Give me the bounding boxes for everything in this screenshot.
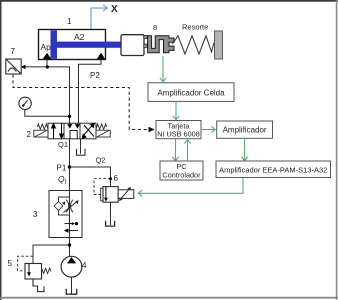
green arrow: Amplificador to EEA-PAM [241,138,247,160]
solenoid (valve 6) [118,190,134,199]
svg-text:P2: P2 [90,71,100,80]
svg-text:3: 3 [33,210,38,219]
junction dot pilot tap [109,177,112,180]
green arrow: Tarjeta to PC [172,139,178,161]
spring left (valve 2) [38,124,49,130]
spring (Resorte) [173,36,215,54]
svg-text:4: 4 [82,261,87,270]
wire pump to tank [71,277,73,294]
wire branch to relief valve 5 [33,245,70,264]
svg-text:7: 7 [11,47,16,56]
tank (valve 2) [77,149,86,155]
port arrow right (filled) [97,53,105,59]
wire valve 6 to tank [110,202,112,225]
svg-text:2: 2 [27,130,32,139]
wire A-line to valve port A [47,67,69,123]
tank (valve 6) [106,221,115,226]
spring (valve 5) [42,268,51,273]
svg-text:Q2: Q2 [96,156,106,165]
solenoid left (valve 2) [34,130,48,137]
wire valve 3 to pump node [69,238,71,257]
centre square (closed ports) [68,123,79,139]
dashed pilot (valve 6) [94,179,111,195]
svg-text:Resorte: Resorte [182,23,208,32]
wire cylinder right port to valve port B [79,60,102,124]
svg-text:X: X [111,4,118,15]
dashed pilot (valve 5) [18,256,33,271]
arrow into sensor 7 [21,65,26,70]
main line through valve 3 [69,191,71,238]
relief valve 5 body [25,264,42,280]
wire X-arrow (displacement axis) [91,5,108,30]
wire valve T port to tank [80,139,82,154]
valve 2 body (4/3 proportional) [48,123,96,139]
svg-text:Amplificador EEA-PAM-S13-A32: Amplificador EEA-PAM-S13-A32 [219,165,327,174]
svg-text:8: 8 [153,23,157,32]
right square crossed arrows [82,123,94,138]
svg-text:A2: A2 [74,32,85,42]
svg-text:Controlador: Controlador [162,171,201,180]
check valve diamond [54,202,63,211]
svg-text:Amplificador: Amplificador [223,126,267,135]
left square arrows (parallel) [52,124,64,139]
arrowhead into card (black) [149,127,155,133]
box PC Controlador [160,161,203,180]
flow arrow in valve 5 [28,264,30,274]
node junction dot [68,243,71,246]
junction dot [46,65,49,68]
dashed pilot line: sensor 7 to NI USB card [13,75,149,130]
green arrow: Tarjeta to Amplificador [201,126,215,132]
wire gauge to main line [25,110,70,117]
svg-text:NI USB 6008: NI USB 6008 [157,130,200,139]
wall (fixed support) [215,31,223,59]
svg-text:5: 5 [8,259,13,268]
coupling block [121,35,144,56]
green arrow: load cell to Amplificador Celda [160,56,166,82]
pressure gauge [19,97,31,109]
svg-text:1: 1 [67,17,72,26]
load cell 8 (gray meander) [148,36,174,53]
green arrow: PC to Tarjeta [184,140,190,161]
solenoid right (valve 2) [96,130,110,137]
wire Q2 branch to valve 6 [70,167,111,187]
pump 4 [61,256,82,277]
pilot strip [101,188,103,201]
piston (blue) [51,30,58,58]
svg-text:P1: P1 [57,164,67,173]
wire cylinder left port down [46,60,48,67]
svg-text:Amplificador Celda: Amplificador Celda [157,89,225,98]
spring right (valve 2) [96,124,107,130]
wire valve P port down to P1 node [69,139,71,191]
relief valve 6 body [103,187,118,203]
box Amplificador [217,121,273,138]
junction dot [68,115,71,118]
svg-text:Q1: Q1 [58,140,68,149]
piston rod (blue) [57,42,121,48]
box Amplificador Celda [148,83,234,102]
drain + tank (valve 5) [33,279,44,292]
green arrow: EEA-PAM to valve 6 solenoid [138,178,243,197]
wire sensor 7 to A-line [25,66,48,68]
tank (pump) [66,289,76,294]
node P1 junction dot [68,165,71,168]
flow control valve 3 outer box [49,191,82,238]
clevis prongs [144,35,147,47]
box Tarjeta NI USB 6008 [156,121,201,139]
flow indicator arrows [65,223,74,225]
svg-text:Ap: Ap [41,42,52,52]
svg-text:6: 6 [114,174,119,183]
flow arrow in valve 6 [105,187,107,199]
bypass loop [59,197,70,215]
cylinder 1 body [39,30,106,60]
green arrow: Celda to Tarjeta [173,101,179,119]
port arrow left (filled) [43,53,51,59]
svg-text:Qt: Qt [58,174,67,186]
pressure sensor 7 [6,59,21,74]
box Amplificador EEA-PAM-S13-A32 [216,161,331,178]
variable throttle [66,200,68,212]
